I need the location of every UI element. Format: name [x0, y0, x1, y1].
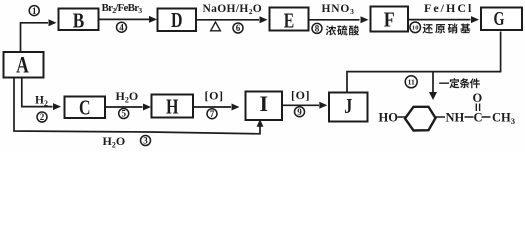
svg-text:H: H	[166, 94, 179, 118]
svg-text:[O]: [O]	[205, 89, 224, 103]
svg-text:B: B	[73, 9, 85, 33]
svg-text:C: C	[79, 96, 91, 120]
svg-text:D: D	[171, 8, 183, 32]
svg-text:9: 9	[297, 107, 302, 117]
svg-text:5: 5	[121, 109, 126, 119]
svg-text:2: 2	[40, 112, 45, 122]
svg-text:Fe/HCl: Fe/HCl	[424, 1, 473, 15]
svg-text:HO: HO	[379, 111, 399, 125]
svg-text:11: 11	[408, 78, 415, 87]
svg-text:7: 7	[210, 109, 215, 119]
svg-text:O: O	[473, 91, 483, 105]
svg-text:I: I	[260, 91, 269, 116]
svg-text:H2: H2	[35, 95, 48, 109]
svg-text:H2O: H2O	[116, 89, 139, 105]
svg-text:4: 4	[119, 22, 124, 32]
svg-text:C: C	[474, 111, 483, 125]
svg-text:J: J	[344, 94, 352, 118]
svg-text:10: 10	[412, 25, 419, 32]
svg-text:E: E	[284, 8, 295, 32]
svg-text:NH: NH	[446, 111, 465, 125]
svg-text:CH3: CH3	[492, 111, 515, 127]
svg-text:8: 8	[315, 24, 320, 34]
svg-text:F: F	[384, 7, 395, 31]
svg-text:Br2/FeBr3: Br2/FeBr3	[102, 2, 143, 15]
svg-text:[O]: [O]	[291, 88, 310, 102]
svg-text:HNO3: HNO3	[322, 3, 355, 16]
svg-text:6: 6	[236, 23, 241, 33]
svg-text:3: 3	[143, 136, 148, 146]
svg-text:A: A	[16, 53, 29, 78]
svg-text:H2O: H2O	[103, 134, 126, 150]
svg-text:NaOH/H2O: NaOH/H2O	[203, 3, 263, 16]
svg-text:G: G	[494, 8, 505, 30]
svg-text:1: 1	[32, 6, 37, 16]
